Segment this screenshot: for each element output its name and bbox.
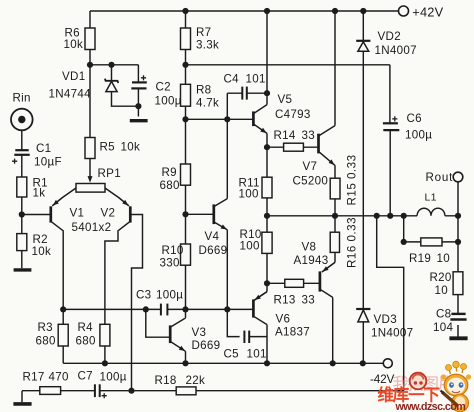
- svg-text:1N4744: 1N4744: [49, 88, 92, 101]
- svg-text:10µF: 10µF: [34, 156, 62, 169]
- svg-text:1N4007: 1N4007: [375, 44, 417, 57]
- svg-text:R18: R18: [155, 374, 177, 387]
- svg-text:-42V: -42V: [370, 372, 394, 386]
- svg-text:22k: 22k: [186, 374, 206, 387]
- svg-text:V8: V8: [302, 241, 317, 254]
- svg-text:C4: C4: [224, 73, 240, 86]
- svg-text:C3: C3: [136, 289, 151, 302]
- svg-text:R3: R3: [38, 321, 53, 334]
- svg-text:A1943: A1943: [294, 254, 329, 267]
- svg-text:4.7k: 4.7k: [196, 97, 219, 110]
- svg-text:R14: R14: [274, 129, 296, 142]
- svg-text:5401x2: 5401x2: [72, 221, 112, 234]
- svg-text:C2: C2: [156, 81, 171, 94]
- svg-text:L1: L1: [425, 192, 437, 204]
- svg-text:V2: V2: [101, 207, 116, 220]
- svg-text:VD1: VD1: [62, 70, 85, 83]
- svg-text:D669: D669: [199, 244, 228, 257]
- svg-text:100µ: 100µ: [405, 129, 432, 142]
- svg-text:C6: C6: [407, 112, 422, 125]
- svg-text:10: 10: [435, 284, 449, 297]
- svg-text:101: 101: [247, 348, 267, 361]
- svg-text:1N4007: 1N4007: [371, 327, 413, 340]
- svg-text:R10: R10: [162, 244, 184, 257]
- svg-text:C1: C1: [36, 142, 51, 155]
- svg-text:100: 100: [239, 188, 259, 201]
- svg-text:C8: C8: [436, 308, 451, 321]
- svg-text:100µ: 100µ: [100, 371, 127, 384]
- svg-text:Rout: Rout: [426, 171, 454, 184]
- svg-text:R9: R9: [162, 166, 177, 179]
- svg-text:R20: R20: [430, 271, 452, 284]
- svg-text:680: 680: [36, 335, 56, 348]
- svg-text:680: 680: [76, 335, 96, 348]
- svg-text:33: 33: [302, 294, 316, 307]
- svg-text:V3: V3: [192, 326, 207, 339]
- svg-text:680: 680: [160, 179, 180, 192]
- svg-text:V6: V6: [276, 313, 291, 326]
- svg-text:V7: V7: [303, 160, 318, 173]
- svg-text:10k: 10k: [64, 38, 84, 51]
- svg-text:10k: 10k: [121, 141, 141, 154]
- svg-text:R8: R8: [196, 84, 211, 97]
- svg-text:R13: R13: [274, 294, 296, 307]
- svg-text:R17: R17: [23, 371, 45, 384]
- svg-text:V5: V5: [278, 93, 293, 106]
- svg-text:D669: D669: [192, 339, 221, 352]
- svg-text:VD2: VD2: [378, 30, 401, 43]
- svg-text:R5: R5: [100, 141, 115, 154]
- svg-text:R19: R19: [409, 252, 431, 265]
- svg-text:+42V: +42V: [412, 4, 443, 19]
- svg-text:10: 10: [437, 252, 451, 265]
- svg-text:R15 0.33: R15 0.33: [346, 154, 359, 205]
- svg-text:R7: R7: [196, 26, 211, 39]
- svg-text:C5: C5: [224, 348, 239, 361]
- svg-text:1k: 1k: [33, 187, 46, 200]
- svg-text:104: 104: [433, 321, 453, 334]
- svg-text:C7: C7: [78, 370, 93, 383]
- svg-text:100µ: 100µ: [155, 95, 182, 108]
- svg-text:330: 330: [160, 257, 180, 270]
- svg-text:V1: V1: [70, 207, 85, 220]
- svg-text:100µ: 100µ: [156, 289, 183, 302]
- svg-text:VD3: VD3: [374, 313, 397, 326]
- svg-text:R4: R4: [78, 321, 94, 334]
- svg-text:R16 0.33: R16 0.33: [346, 217, 359, 268]
- svg-text:33: 33: [302, 129, 316, 142]
- svg-text:C5200: C5200: [293, 175, 329, 188]
- svg-text:A1837: A1837: [275, 326, 310, 339]
- svg-text:101: 101: [246, 73, 266, 86]
- svg-text:3.3k: 3.3k: [196, 39, 219, 52]
- svg-text:470: 470: [49, 371, 69, 384]
- svg-text:www.dzsc.com: www.dzsc.com: [395, 401, 466, 412]
- svg-text:C4793: C4793: [275, 108, 311, 121]
- svg-text:RP1: RP1: [98, 167, 121, 180]
- svg-text:100: 100: [240, 240, 260, 253]
- svg-text:Rin: Rin: [13, 92, 31, 105]
- svg-text:10k: 10k: [32, 245, 52, 258]
- svg-text:V4: V4: [205, 230, 220, 243]
